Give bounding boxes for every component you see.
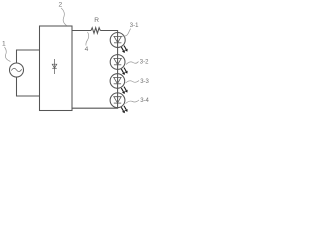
svg-text:3-3: 3-3 [140, 79, 149, 85]
svg-text:1: 1 [2, 41, 6, 48]
svg-text:R: R [94, 17, 99, 24]
svg-text:3-4: 3-4 [140, 98, 149, 104]
svg-text:3-2: 3-2 [140, 59, 149, 65]
svg-text:4: 4 [85, 46, 89, 53]
svg-text:2: 2 [59, 2, 63, 9]
svg-text:3-1: 3-1 [130, 23, 139, 29]
